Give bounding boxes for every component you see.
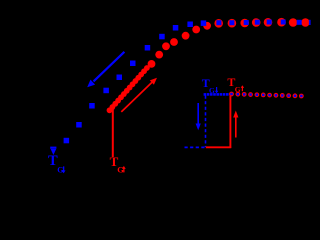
red FC curve saturated top row circles xyxy=(214,18,309,28)
inset red label T_G(up) xyxy=(227,75,244,94)
svg-text:G: G xyxy=(57,165,63,174)
inset blue upper plateau dashed squares xyxy=(204,93,229,96)
inset blue dashed lower plateau line xyxy=(185,146,207,148)
red FC curve distinct circles mid-section xyxy=(148,22,211,68)
inset red upper plateau circle markers with blue centers xyxy=(229,92,304,99)
red annotation arrow (points up-right at FC curve) xyxy=(121,78,157,112)
inset blue label T_G(down) xyxy=(202,76,219,95)
blue annotation arrow (points down-left at ZFC curve) xyxy=(87,52,124,88)
inset blue down arrow (cooling direction) xyxy=(196,103,201,130)
inset red up arrow (heating direction) xyxy=(233,111,238,138)
blue ZFC squares on top of saturated red circles xyxy=(216,20,310,26)
inset blue dashed vertical step at T_G(down) xyxy=(205,96,207,148)
blue ZFC curve squares rising section xyxy=(64,20,207,143)
wire: red FC curve dense lower chain of circles xyxy=(107,65,150,113)
inset red solid vertical step at T_G(up) xyxy=(229,95,231,149)
inset red solid lower plateau line xyxy=(206,146,231,148)
main red label T_G(up) xyxy=(110,154,126,174)
blue small down-arrow glyph above main T_G label xyxy=(50,147,56,155)
red vertical drop line at T_G up on main plot xyxy=(112,106,114,157)
main blue label T_G(down) xyxy=(48,153,66,174)
